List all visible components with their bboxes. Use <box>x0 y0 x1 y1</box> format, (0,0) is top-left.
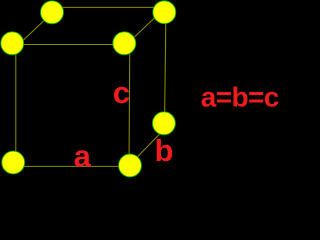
atom top back right <box>153 1 176 24</box>
svg-text:b: b <box>155 133 174 168</box>
wire back right vertical B-G <box>165 7 167 125</box>
atom bottom front right <box>119 154 142 177</box>
wire top back edge A-B <box>51 6 166 8</box>
svg-text:a=b=c: a=b=c <box>201 82 279 113</box>
atom top back left <box>41 1 64 24</box>
atom top front right <box>113 32 136 55</box>
wire top front edge C-D <box>12 44 126 46</box>
wire front right vertical D-F <box>128 45 131 166</box>
wire top right diagonal D-B <box>126 7 166 45</box>
atom bottom front left <box>2 151 25 174</box>
wire front left vertical C-E <box>15 45 17 167</box>
wire top left diagonal C-A <box>15 13 52 48</box>
svg-text:c: c <box>113 75 130 110</box>
wire bottom right diagonal F-G <box>131 129 165 164</box>
svg-text:a: a <box>74 139 92 174</box>
wire bottom front edge E-F <box>14 165 130 167</box>
atom bottom back right <box>152 112 175 135</box>
atom top front left <box>1 32 24 55</box>
